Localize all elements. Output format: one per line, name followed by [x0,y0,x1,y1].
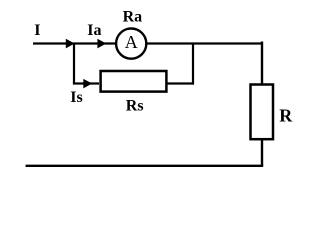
svg-text:Ra: Ra [123,8,143,25]
resistor Rs [101,71,167,92]
wire: shunt branch up to node [192,43,194,85]
svg-text:Ia: Ia [87,22,101,39]
wire: right rail down to load [261,42,263,86]
wire: Rs output stub [166,82,194,84]
current arrow I [66,39,75,49]
ammeter U1 [116,28,146,58]
wire: meter output to right rail [146,42,263,44]
wire: stub into resistor Rs [73,82,99,84]
wire: left input lead [33,42,74,44]
wire: load down to bottom rail [261,138,263,166]
svg-text:Is: Is [70,89,82,106]
wire: ammeter branch to meter [74,42,116,44]
svg-text:A: A [125,32,138,52]
current arrow Is [83,79,92,89]
wire: bottom return rail [26,165,264,167]
svg-text:Rs: Rs [126,98,144,115]
wire: junction down to shunt branch [73,43,75,84]
resistor R (load) [251,85,274,140]
current arrow Ia [97,39,106,49]
svg-text:I: I [34,22,40,39]
svg-text:R: R [279,105,293,125]
